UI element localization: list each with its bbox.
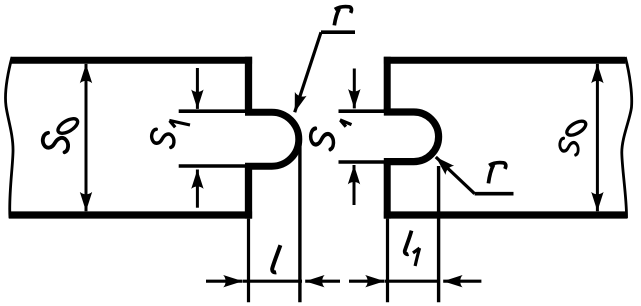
label S0 right: subscript 0 xyxy=(565,118,588,138)
dimension l1: extension line from groove bottom xyxy=(437,166,440,302)
dimension l: extension line from plate edge xyxy=(247,219,250,303)
label S1 right: letter S xyxy=(311,128,334,149)
dimension l1: middle line xyxy=(385,280,440,283)
label r left xyxy=(334,7,351,26)
leader r left: shelf xyxy=(321,30,355,34)
dimension S0 left: line with arrows xyxy=(85,64,88,138)
label l1: letter l xyxy=(405,231,412,255)
right plate left edge upper segment xyxy=(384,57,391,112)
dimension S1 right extension line top xyxy=(339,109,388,113)
leader r right: arrow line to groove radius xyxy=(436,157,475,194)
label S1 left: letter S xyxy=(152,129,174,147)
leader r right: shelf xyxy=(475,192,514,196)
label l1: subscript 1 xyxy=(413,248,420,266)
dimension S1 right extension line bottom xyxy=(339,160,388,164)
dimension l: middle line xyxy=(243,280,302,283)
dimension S0 right: line with arrows xyxy=(596,64,599,138)
label S1 left: subscript 1 xyxy=(169,120,190,127)
right plate bottom edge xyxy=(384,211,627,218)
left plate tongue with rounded tip radius r xyxy=(245,112,299,166)
dimension l: right arrow tail xyxy=(305,280,340,283)
leader r left: arrow line to tongue tip xyxy=(295,32,321,112)
label S0 left: letter S xyxy=(43,133,68,152)
right plate top edge xyxy=(384,57,625,64)
left plate right edge lower segment xyxy=(245,166,252,218)
dimension S1 right upper arrow line xyxy=(353,69,356,109)
right plate groove with rounded bottom radius r xyxy=(384,112,439,162)
right plate break line (wavy right edge) xyxy=(622,57,632,218)
dimension l: left arrow tail xyxy=(206,280,243,283)
right plate left edge lower segment xyxy=(384,162,391,219)
dimension S1 left lower arrow line xyxy=(196,170,199,208)
label S0 right: letter S xyxy=(560,138,578,155)
label S1 right: subscript 1 xyxy=(340,120,352,127)
dimension l1: left arrow tail xyxy=(349,280,385,283)
dimension S1 right lower arrow line xyxy=(353,165,356,205)
left plate top edge xyxy=(11,57,252,64)
dimension l1: extension line from plate edge xyxy=(386,219,389,303)
dimension l1: right arrow tail xyxy=(443,280,481,283)
left plate break line (wavy left edge) xyxy=(5,57,13,218)
dimension S1 left upper arrow line xyxy=(196,68,199,109)
left plate right edge upper segment xyxy=(245,57,252,112)
dimension l: extension line from tongue tip xyxy=(298,139,301,302)
label S0 left: subscript 0 xyxy=(56,116,80,136)
label l xyxy=(272,245,280,272)
dimension S1 left extension line bottom xyxy=(179,164,245,168)
dimension S1 left extension line top xyxy=(179,109,245,113)
label r right xyxy=(488,163,505,184)
left plate bottom edge xyxy=(9,211,252,218)
